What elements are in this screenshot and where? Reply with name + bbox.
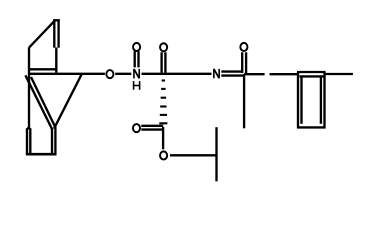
atom label N (134, 69, 139, 79)
ester C to O vertical bond (162, 127, 164, 149)
chain bond amide C to right (244, 73, 265, 75)
cage bottom-left double bond line 2 (29, 128, 31, 154)
atom label N imine (214, 69, 219, 78)
atom label O above alpha carbon (160, 43, 167, 51)
C=O double bond line 2 (164, 52, 166, 72)
cage top diagonal bond (29, 21, 55, 48)
cage long left vertical bond (28, 47, 30, 128)
atom label O above N (133, 43, 140, 51)
cage bottom horizontal bond (26, 153, 57, 156)
cage bottom-left double bond line 1 (26, 128, 28, 154)
N=O double bond line 2 (137, 51, 139, 67)
cage horizontal double bond upper line (28, 68, 56, 70)
cage bottom-right double bond line 2 (54, 127, 56, 154)
benzene ring inner right line (320, 76, 322, 123)
isopropyl CH vertical bonds (215, 127, 217, 181)
bond O to N chain (115, 73, 131, 75)
cage top double bond left line (53, 19, 55, 47)
atom label O ester (160, 151, 167, 159)
bond benzene to methyl (325, 73, 353, 75)
hashed wedge stereo bond (159, 81, 167, 124)
atom label O chain (106, 70, 113, 78)
cage top double bond right line (57, 19, 59, 47)
chain bond to benzene ring (270, 73, 298, 75)
cage inner double diagonal line 2 (31, 77, 56, 128)
bicyclic cage top cap (53, 19, 60, 21)
benzene ring inner left line (300, 76, 302, 123)
main chain horizontal bond to O (28, 73, 105, 75)
cage inner double diagonal line 1 (25, 75, 52, 129)
cage right diagonal bond (54, 74, 82, 128)
methyl bond below amide carbon (243, 74, 245, 128)
C=O double bond line 1 (160, 52, 162, 72)
amide C=O double bond line 2 (245, 52, 247, 73)
atom label H (134, 81, 140, 90)
cage vertical bond below double bond (55, 48, 57, 73)
ester C=O double bond line 1 (141, 125, 163, 127)
ester C=O double bond line 2 (141, 128, 163, 130)
benzene ring inner top line (300, 75, 324, 77)
N=C double bond upper line (221, 70, 242, 72)
cage bottom-left cap (27, 127, 30, 129)
amide C=O double bond line 1 (241, 52, 243, 73)
benzene ring outer rectangle (297, 72, 326, 127)
N=O double bond line 1 (134, 51, 136, 67)
atom label O above amide carbon (240, 43, 247, 51)
atom label O ester carbonyl (133, 124, 140, 132)
ester O to isopropyl bond (170, 154, 217, 156)
N=C double bond lower line (221, 74, 243, 76)
cage bottom-right double bond line 1 (51, 128, 53, 154)
bond N through alpha carbon to N (142, 73, 212, 75)
